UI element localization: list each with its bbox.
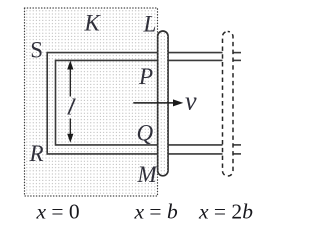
field region (stippled) x=0 to x=b [25,8,158,196]
wire: outer left side S-R [46,52,48,155]
wire: outer top rail S-K-L to dashed bar [47,52,225,54]
wire: inner left side [55,60,57,146]
svg-text:M: M [137,162,159,187]
field region dotted border [25,8,158,196]
wire: inner bottom rail [56,144,226,146]
wire: outer bottom rail R-M to dashed bar [47,153,225,155]
svg-text:S: S [30,38,43,63]
svg-text:P: P [138,64,153,89]
svg-text:x = 2b: x = 2b [198,200,253,224]
svg-text:Q: Q [137,121,154,146]
dashed bar at x=2b [223,32,234,177]
velocity arrow v [133,102,174,104]
svg-text:x = 0: x = 0 [36,200,80,224]
wire stubs right of dashed bar [231,52,241,54]
conducting rod LM at x=b [158,31,168,176]
svg-text:L: L [143,12,157,37]
svg-text:v: v [185,87,197,116]
svg-text:K: K [84,11,102,36]
svg-text:x = b: x = b [134,200,178,224]
svg-text:R: R [29,141,44,166]
length arrow l (double headed) [69,67,71,97]
wire: inner top rail [56,59,226,61]
